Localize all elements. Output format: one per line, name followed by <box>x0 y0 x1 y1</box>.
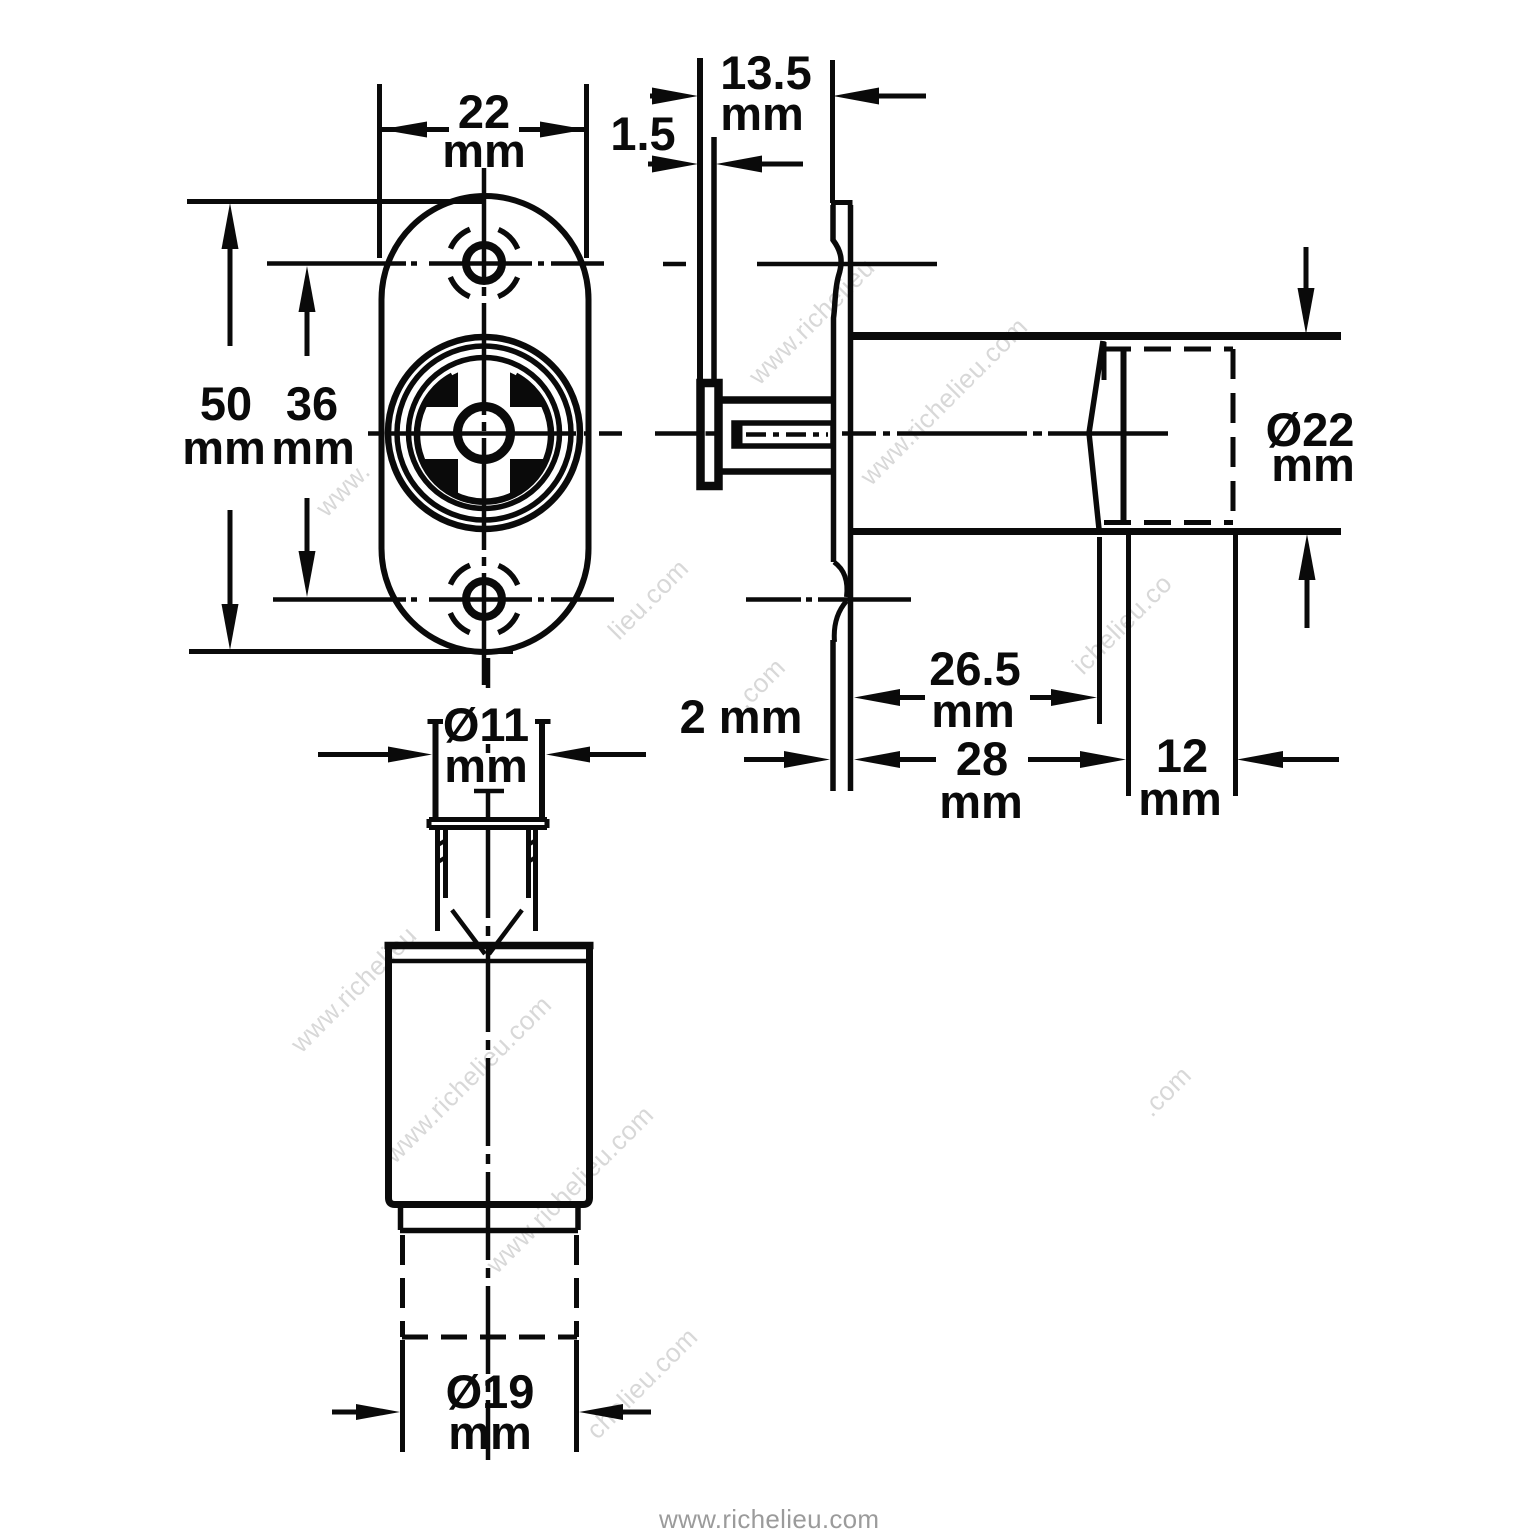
dimension diameter 11 mm: right arrow <box>590 752 646 757</box>
bottom view: vertical centerline <box>486 658 491 820</box>
top screw hole: dashed pilot circle <box>448 227 521 300</box>
lock cylinder core: rotor blob NE <box>510 372 545 407</box>
dimension diameter 19 mm: right arrow <box>621 1410 651 1415</box>
lock cylinder core: rotor blob NW <box>423 372 458 407</box>
bottom view: stem left side <box>433 722 439 819</box>
bottom view: washer collar <box>429 819 547 828</box>
dimension 1.5: left arrow <box>648 162 657 167</box>
dimension 50 mm: lower arrow <box>228 510 233 606</box>
svg-text:mm: mm <box>182 421 266 474</box>
bottom view: stem top ticks <box>428 719 551 724</box>
bottom view: thread root lines <box>446 829 529 898</box>
side view: panel back face line <box>848 205 854 791</box>
bottom view: hidden shaft dashed sides <box>403 1235 577 1337</box>
bottom view: thread chamfer cone <box>452 910 522 954</box>
dimension 50 mm: bottom extension line <box>189 649 513 654</box>
dimension 36 mm: lower arrow <box>305 498 310 551</box>
side view: panel front face line with break jog <box>833 205 841 562</box>
lock cylinder core: broken ring around rotor <box>417 376 551 502</box>
bottom view: cylinder body sides and bottom <box>389 948 590 1205</box>
dimension 1.5: right arrow <box>762 162 803 167</box>
side view: main horizontal centerline <box>655 431 1168 436</box>
side view: flange plate front edge (1.5 mm plate) <box>697 58 703 487</box>
top screw hole: solid circle <box>466 245 502 281</box>
svg-text:mm: mm <box>931 684 1015 737</box>
side view: cylinder boss on plate <box>701 383 719 486</box>
dimension 28 mm: cam end extension line <box>1126 532 1131 796</box>
bottom screw hole centerline (36 mm extension) <box>273 597 614 602</box>
bottom view: centerline cross tick <box>474 789 504 794</box>
dimension 22 mm: right extension line <box>584 84 589 258</box>
bottom view: diameter 19 extension lines <box>403 1340 577 1452</box>
dimension diameter 22 mm: down arrow <box>1304 247 1309 292</box>
bottom view: cylinder body top line <box>385 942 594 950</box>
lock cylinder face: outer bezel ring <box>388 337 580 529</box>
lock cylinder core: key pin circle <box>458 407 511 460</box>
dimension 13.5 mm: left arrow <box>650 94 661 99</box>
lock cylinder face: inner ring <box>409 358 560 509</box>
svg-text:mm: mm <box>1138 772 1222 825</box>
dimension diameter 19 mm: left arrow <box>332 1410 360 1415</box>
svg-text:mm: mm <box>448 1406 532 1459</box>
side view: barrel bottom line / diameter extension <box>848 528 1341 535</box>
dimension 13.5 mm: right arrow <box>879 94 926 99</box>
dimension 28 mm: left arrow (shared with 2 mm) <box>898 757 936 762</box>
bottom view: stem right side <box>539 722 545 819</box>
dimension 36 mm: upper arrow <box>305 312 310 356</box>
side view: top screw hole centerline <box>663 262 937 267</box>
side view: bottom screw hole centerline <box>746 597 911 602</box>
svg-text:mm: mm <box>720 87 804 140</box>
side view: hidden cam swing (dashed box) top <box>1104 347 1233 352</box>
dimension 50 mm: upper arrow <box>228 246 233 346</box>
bottom view: thread crest lines <box>438 829 536 931</box>
side view: threaded shaft dashed centerline <box>746 432 828 437</box>
dimension diameter 11 mm: left arrow <box>318 752 390 757</box>
lock cylinder core: rotor blob SW <box>423 459 458 494</box>
dimension 26.5 mm: right arrow <box>1030 695 1051 700</box>
svg-text:mm: mm <box>271 421 355 474</box>
side view: cam front face (bent profile) <box>1089 341 1103 529</box>
dimension 22 mm: dimension line with outward arrows <box>381 127 584 132</box>
svg-text:mm: mm <box>442 124 526 177</box>
bottom view: thread tick marks <box>438 840 536 862</box>
dimension 12 mm: right extension line <box>1233 528 1238 796</box>
dimension 22 mm: left extension line <box>377 84 382 258</box>
side view: threaded shaft housing <box>734 423 833 446</box>
footer url <box>659 1506 879 1532</box>
side view: cam back face <box>1121 349 1127 522</box>
side view: hidden cam swing (dashed box) bottom <box>1104 520 1233 525</box>
dimension diameter 22 mm: up arrow <box>1305 578 1310 628</box>
side view: neck top line <box>721 396 831 404</box>
top screw hole centerline (36 mm extension) <box>267 261 604 266</box>
front view vertical centerline <box>482 168 487 686</box>
bottom view: hidden shaft dashed end <box>402 1335 577 1340</box>
bottom screw hole: dashed pilot circle <box>448 563 521 636</box>
dimension 28 mm: right arrow <box>1028 757 1082 762</box>
side view: cam hub edge <box>1102 342 1107 380</box>
dimension 50 mm: top extension line <box>187 199 486 204</box>
svg-text:mm: mm <box>1271 438 1355 491</box>
side view: hidden cam swing (dashed box) right <box>1231 349 1236 523</box>
svg-text:1.5: 1.5 <box>610 107 675 160</box>
side view: panel lower break arcs <box>834 562 847 597</box>
dimension 26.5 mm: extension line <box>1097 537 1102 724</box>
dimension 13.5 mm: right extension line above panel <box>830 60 835 203</box>
side view: neck bottom line <box>721 468 831 475</box>
front view horizontal centerline <box>368 431 622 436</box>
lock cylinder core: rotor blob SE <box>510 459 545 494</box>
bottom view: collar below cylinder <box>400 1208 578 1231</box>
front view: oval flange plate outline <box>382 196 589 652</box>
bottom view: cylinder body second line <box>390 959 587 964</box>
side view: threaded shaft left cap <box>736 423 743 446</box>
dimension 12 mm: right arrow <box>1281 757 1339 762</box>
lock cylinder face: middle ring <box>397 346 571 520</box>
side view: barrel top line / diameter extension <box>848 332 1341 340</box>
dimension 2 mm: left arrow <box>744 757 788 762</box>
side view: flange plate back edge <box>711 137 717 382</box>
svg-text:mm: mm <box>939 775 1023 828</box>
dimension 26.5 mm: left arrow <box>900 695 925 700</box>
side view: panel top cap <box>831 200 853 205</box>
bottom screw hole: solid circle <box>466 581 502 617</box>
svg-text:2 mm: 2 mm <box>680 690 803 743</box>
svg-text:mm: mm <box>444 739 528 792</box>
watermark fragments <box>743 253 880 390</box>
